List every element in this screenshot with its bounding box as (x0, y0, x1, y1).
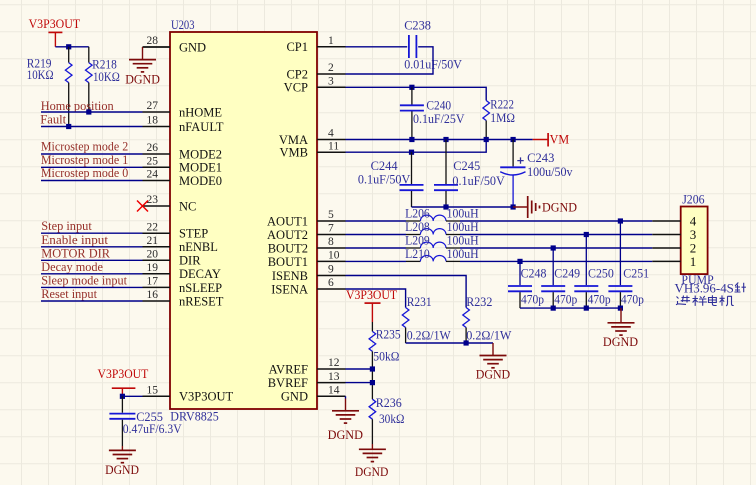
wire Microstep mode 0 net (41, 180, 143, 182)
capacitor C243 electrolytic (512, 140, 514, 167)
svg-text:22: 22 (147, 221, 159, 233)
wire BOUT1 / inductor L210 (346, 260, 407, 262)
CJK char zhen (needle) (735, 283, 746, 293)
node junction at R219 tap (66, 44, 71, 49)
svg-text:STEP: STEP (179, 227, 208, 241)
node junction rail/C251 (618, 306, 623, 311)
ground DGND (C255) (121, 446, 123, 450)
svg-text:0.1uF/25V: 0.1uF/25V (413, 111, 465, 126)
svg-text:VH3.96-4S: VH3.96-4S (675, 280, 734, 295)
pin 3 of J206 (652, 234, 680, 236)
node junction VMB/C244 (409, 150, 414, 155)
svg-text:10: 10 (328, 250, 340, 262)
svg-text:GND: GND (281, 390, 308, 404)
svg-text:3: 3 (328, 76, 334, 88)
resistor R218 (88, 47, 90, 63)
svg-text:DGND: DGND (476, 368, 511, 382)
svg-text:18: 18 (147, 115, 159, 127)
svg-text:26: 26 (147, 142, 159, 154)
svg-text:470p: 470p (621, 291, 644, 306)
node junction R219/Fault (66, 124, 71, 129)
svg-text:VCP: VCP (284, 81, 308, 95)
node junction C251 tap (618, 218, 623, 223)
node junction C249 tap (551, 245, 556, 250)
svg-text:BOUT2: BOUT2 (268, 241, 308, 255)
svg-text:25: 25 (147, 156, 159, 168)
svg-text:C251: C251 (623, 265, 649, 280)
svg-text:L210: L210 (405, 246, 430, 261)
node junction VMA/VMB/R222 (484, 137, 489, 142)
capacitor C244 (411, 152, 413, 184)
ground DGND (pin 28) (129, 59, 156, 61)
pin 12 AVREF (right) (317, 368, 346, 370)
svg-text:28: 28 (147, 35, 159, 47)
pin 6 ISENA (right) (317, 288, 346, 290)
svg-text:24: 24 (147, 169, 159, 181)
svg-text:DECAY: DECAY (179, 267, 221, 281)
wire pin 1 CP1 to C238 (346, 46, 408, 48)
svg-text:DIR: DIR (179, 254, 201, 268)
capacitor C250 (585, 235, 587, 286)
svg-text:R235: R235 (376, 326, 401, 341)
svg-text:100u/50v: 100u/50v (527, 164, 573, 179)
svg-text:C243: C243 (527, 150, 554, 165)
pin 18 nFAULT (left) (143, 126, 171, 128)
IC U203 DRV8825 body (170, 32, 317, 409)
svg-text:DGND: DGND (328, 428, 363, 442)
inductor L210 (406, 260, 420, 262)
svg-text:DGND: DGND (105, 463, 139, 477)
connector J206 body (681, 207, 708, 275)
ground DGND (pin 14) (332, 410, 359, 412)
svg-text:BVREF: BVREF (268, 376, 308, 390)
svg-text:V3P3OUT: V3P3OUT (98, 366, 149, 381)
svg-text:CP2: CP2 (286, 67, 308, 81)
svg-text:NC: NC (179, 199, 196, 213)
wire 470p ground rail (520, 307, 621, 309)
svg-text:11: 11 (328, 140, 339, 152)
wire pin 28 GND down (143, 46, 171, 48)
node junction R218/Home position (86, 109, 91, 114)
svg-text:DGND: DGND (355, 465, 389, 479)
capacitor C240 (411, 87, 413, 104)
svg-text:C245: C245 (453, 158, 480, 173)
wire L208 output to J206 (460, 234, 652, 236)
wire Microstep mode 2 net (41, 153, 143, 155)
svg-text:C250: C250 (588, 265, 614, 280)
svg-text:21: 21 (147, 235, 159, 247)
svg-text:nSLEEP: nSLEEP (179, 281, 222, 295)
svg-text:U203: U203 (171, 17, 195, 32)
pin 16 nRESET (left) (143, 300, 171, 302)
pin 15 V3P3OUT (left) (143, 395, 171, 397)
node junction VCP/C240 (409, 85, 414, 90)
svg-text:17: 17 (147, 276, 159, 288)
wire Step input net (41, 232, 143, 234)
svg-text:16: 16 (147, 289, 159, 301)
svg-text:nHOME: nHOME (179, 105, 222, 119)
power port VM (533, 139, 549, 141)
wire Microstep mode 1 net (41, 166, 143, 168)
node junction VMA/C245 (443, 137, 448, 142)
pin 2 CP2 (right) (317, 73, 346, 75)
node junction C248 tap (517, 259, 522, 264)
pin 22 STEP (left) (143, 232, 171, 234)
svg-text:R231: R231 (407, 294, 432, 309)
capacitor C249 (552, 248, 554, 285)
pin 4 of J206 (652, 220, 680, 222)
wire V3P3OUT to resistors (55, 46, 88, 48)
svg-text:ISENB: ISENB (272, 269, 308, 283)
pin 2 of J206 (652, 247, 680, 249)
svg-text:9: 9 (328, 264, 334, 276)
pin 11 VMB (right) (317, 151, 346, 153)
svg-text:DGND: DGND (542, 200, 577, 214)
wire L206 output to J206 (460, 220, 652, 222)
svg-text:2: 2 (328, 62, 334, 74)
svg-text:nENBL: nENBL (179, 240, 218, 254)
pin 28 GND (left) (143, 46, 171, 48)
svg-text:100uH: 100uH (447, 246, 479, 261)
node junction BVREF (370, 380, 375, 385)
CJK label jin-yang-dian-ji (sampling motor) (676, 296, 690, 305)
svg-text:C249: C249 (554, 265, 580, 280)
svg-text:0.2Ω/1W: 0.2Ω/1W (466, 328, 512, 343)
svg-text:nRESET: nRESET (179, 294, 224, 308)
pin 1 CP1 (right) (317, 46, 346, 48)
wire pin 6 ISENA to R231 (346, 289, 406, 308)
svg-text:VMB: VMB (280, 146, 308, 160)
wire pin 13 BVREF tap (346, 382, 373, 384)
pin 20 DIR (left) (143, 259, 171, 261)
svg-text:0.2Ω/1W: 0.2Ω/1W (407, 328, 452, 343)
svg-text:6: 6 (328, 277, 334, 289)
svg-text:0.47uF/6.3V: 0.47uF/6.3V (123, 421, 182, 436)
wire pin 12 AVREF tap (346, 368, 373, 370)
svg-text:20: 20 (147, 249, 159, 261)
pin 25 MODE1 (left) (143, 166, 171, 168)
resistor R235 (371, 322, 373, 331)
svg-text:13: 13 (328, 371, 340, 383)
svg-text:5: 5 (328, 209, 334, 221)
ground DGND (rotated, decoupling rail) (513, 206, 528, 208)
svg-text:C248: C248 (521, 265, 547, 280)
node junction VMA/C243 (511, 137, 516, 142)
resistor R231 (402, 308, 409, 328)
wire VMB rail (pin 11) (346, 140, 487, 153)
svg-text:ISENA: ISENA (271, 282, 308, 296)
wire sense ground rail (406, 342, 493, 344)
node junction C255 tap (120, 394, 125, 399)
svg-text:R236: R236 (376, 395, 402, 410)
wire Enable input net (41, 246, 143, 248)
pin 13 BVREF (right) (317, 382, 346, 384)
svg-text:4: 4 (328, 128, 334, 140)
node junction rail/C249 (551, 306, 556, 311)
svg-text:470p: 470p (521, 291, 544, 306)
resistor R236 (369, 399, 376, 419)
wire AOUT1 / inductor L206 (346, 220, 407, 222)
wire L209 output to J206 (460, 247, 652, 249)
wire Home position net (41, 111, 143, 113)
capacitor C245 (445, 140, 447, 185)
svg-text:MODE2: MODE2 (179, 147, 222, 161)
svg-text:30kΩ: 30kΩ (379, 411, 405, 426)
svg-text:V3P3OUT: V3P3OUT (179, 390, 234, 404)
svg-text:50kΩ: 50kΩ (373, 348, 399, 363)
node junction AVREF (370, 366, 375, 371)
svg-text:14: 14 (328, 384, 340, 396)
node junction rail/C245 (443, 204, 448, 209)
capacitor C255 (121, 396, 123, 412)
ground DGND (470p rail) (620, 308, 622, 323)
svg-text:AOUT1: AOUT1 (267, 214, 308, 228)
wire Reset input net (41, 300, 143, 302)
svg-text:C238: C238 (404, 17, 431, 32)
wire MOTOR DIR net (41, 259, 143, 261)
svg-text:AVREF: AVREF (269, 362, 308, 376)
svg-text:CP1: CP1 (286, 40, 308, 54)
wire AOUT2 / inductor L208 (346, 234, 407, 236)
svg-text:nFAULT: nFAULT (179, 120, 224, 134)
svg-text:10KΩ: 10KΩ (93, 69, 120, 84)
pin 9 ISENB (right) (317, 275, 346, 277)
svg-text:V3P3OUT: V3P3OUT (29, 16, 81, 31)
wire Decay mode net (41, 273, 143, 275)
svg-text:470p: 470p (588, 291, 611, 306)
svg-text:MODE1: MODE1 (179, 161, 222, 175)
wire Sleep mode input net (41, 286, 143, 288)
svg-text:1MΩ: 1MΩ (490, 110, 515, 125)
no-connect X on pin 23 NC (137, 201, 148, 212)
pin 8 BOUT2 (right) (317, 247, 346, 249)
svg-text:BOUT1: BOUT1 (268, 255, 308, 269)
svg-text:23: 23 (147, 194, 159, 206)
pin 4 VMA (right) (317, 139, 346, 141)
node junction C250 tap (584, 232, 589, 237)
svg-text:19: 19 (147, 262, 159, 274)
wire pin 9 ISENB to R232 (346, 276, 467, 308)
svg-text:DGND: DGND (603, 335, 638, 349)
svg-text:1: 1 (690, 254, 697, 269)
svg-text:GND: GND (179, 40, 206, 54)
svg-text:Reset input: Reset input (41, 286, 97, 301)
wire Fault net (41, 126, 143, 128)
svg-text:MODE0: MODE0 (179, 174, 222, 188)
svg-text:0.1uF/50V: 0.1uF/50V (358, 171, 411, 186)
resistor R232 (463, 308, 470, 328)
svg-text:8: 8 (328, 236, 334, 248)
wire pin 14 GND down (345, 396, 347, 398)
capacitor C251 (619, 221, 621, 285)
inductor L206 (406, 220, 420, 222)
capacitor C248 (519, 261, 521, 285)
svg-text:V3P3OUT: V3P3OUT (346, 287, 397, 302)
pin 7 AOUT2 (right) (317, 234, 346, 236)
pin 19 DECAY (left) (143, 273, 171, 275)
capacitor C238 (408, 35, 410, 58)
svg-text:Fault: Fault (40, 112, 66, 127)
wire C238 to pin 2 CP2 (346, 47, 434, 74)
svg-text:7: 7 (328, 223, 334, 235)
pin 24 MODE0 (left) (143, 180, 171, 182)
wire pin 3 VCP to R222 (346, 87, 487, 100)
wire BOUT2 / inductor L209 (346, 247, 407, 249)
pin 21 nENBL (left) (143, 246, 171, 248)
pin 26 MODE2 (left) (143, 153, 171, 155)
node junction rail/C250 (584, 306, 589, 311)
node junction R232/sense rail (464, 340, 469, 345)
pin 27 nHOME (left) (143, 111, 171, 113)
wire L210 output to J206 (460, 260, 652, 262)
svg-text:470p: 470p (554, 291, 577, 306)
svg-text:27: 27 (147, 100, 159, 112)
ground DGND (sense rail) (492, 343, 494, 356)
svg-text:R232: R232 (466, 294, 492, 309)
pin 23 NC (left) (143, 205, 171, 207)
wire V3P3OUT to pin 15 (122, 395, 142, 397)
wire decoupling ground rail (412, 206, 514, 208)
wire VMA rail (pin 4) (346, 139, 533, 141)
svg-text:10KΩ: 10KΩ (27, 67, 54, 82)
pin 14 GND (right) (317, 395, 346, 397)
node junction rail/C243 (511, 204, 516, 209)
svg-text:0.1uF/50V: 0.1uF/50V (452, 173, 505, 188)
svg-text:1: 1 (328, 35, 334, 47)
svg-text:VM: VM (550, 132, 570, 147)
svg-text:J206: J206 (682, 191, 705, 206)
inductor L209 (406, 247, 420, 249)
pin 3 VCP (right) (317, 86, 346, 88)
svg-text:AOUT2: AOUT2 (267, 228, 308, 242)
pin 5 AOUT1 (right) (317, 220, 346, 222)
pin 1 of J206 (652, 260, 680, 262)
svg-text:12: 12 (328, 357, 340, 369)
resistor R222 (483, 101, 490, 121)
pin 17 nSLEEP (left) (143, 286, 171, 288)
svg-text:Microstep mode 0: Microstep mode 0 (41, 165, 128, 180)
svg-text:DGND: DGND (125, 72, 160, 86)
pin 10 BOUT1 (right) (317, 260, 346, 262)
inductor L208 (406, 234, 420, 236)
svg-text:15: 15 (147, 385, 159, 397)
node junction VMA/C240 (409, 137, 414, 142)
resistor R219 (68, 47, 70, 63)
ground DGND (R236) (371, 444, 373, 449)
